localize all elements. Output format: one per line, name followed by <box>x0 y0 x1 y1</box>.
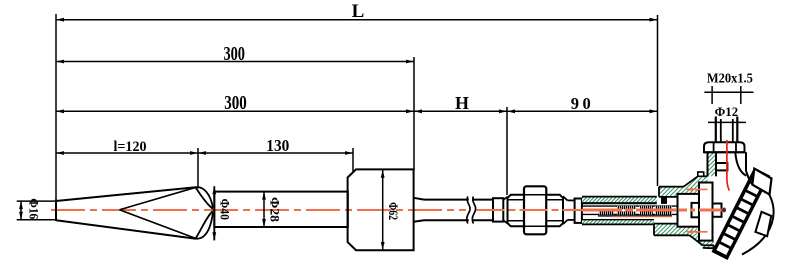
extension line left at tip face <box>55 14 57 221</box>
svg-text:90: 90 <box>571 94 595 113</box>
cone internal V lines <box>120 187 197 238</box>
svg-text:300: 300 <box>224 93 247 114</box>
reducer neck after flange <box>414 198 493 222</box>
connector dome <box>742 186 774 254</box>
spring coil upper segments <box>617 206 636 209</box>
svg-text:300: 300 <box>223 44 245 65</box>
dimension line 300 second + H + 90 <box>56 110 658 112</box>
head bushing bottom wall hatched <box>654 224 714 249</box>
union fitting collar left <box>493 198 503 221</box>
head outline lines <box>654 176 714 249</box>
dimension arrowheads <box>19 18 657 250</box>
M20 tick right <box>740 86 742 104</box>
tube end block in bushing bore <box>661 197 667 204</box>
Phi12 neck walls <box>716 117 738 143</box>
pipe break squiggles <box>469 198 473 223</box>
centerline solid in head <box>699 209 722 212</box>
Phi12 tick left <box>715 117 717 130</box>
svg-text:Φ28: Φ28 <box>267 197 282 223</box>
terminal pin <box>713 204 722 217</box>
head bushing top wall hatched <box>659 187 684 197</box>
Phi40 dim line <box>213 186 215 240</box>
extension line x=198 (l=120 / 130) <box>197 148 199 189</box>
fitting taper left <box>503 197 507 224</box>
svg-text:Φ62: Φ62 <box>386 202 400 220</box>
protection tube hatched top wall <box>582 197 657 202</box>
head boss left wall hatched <box>708 152 717 176</box>
Phi12 tick right <box>736 117 738 130</box>
Phi16 extension top <box>17 200 56 202</box>
head top wedge hatched <box>684 176 704 194</box>
svg-text:M20x1.5: M20x1.5 <box>707 70 753 85</box>
cable ferrule <box>692 203 700 217</box>
orange leader upper <box>685 188 708 192</box>
fitting nut right <box>546 195 563 227</box>
svg-text:Φ16: Φ16 <box>27 198 42 219</box>
corner hatch under step <box>704 176 708 186</box>
ribbed connector band <box>713 169 770 259</box>
Phi16 extension bottom <box>17 219 56 221</box>
svg-text:l=120: l=120 <box>114 139 147 155</box>
Phi28 cylinder <box>214 192 347 227</box>
head boss outline <box>708 152 750 180</box>
terminal plate tall <box>699 183 713 241</box>
extension line x=657.5 (L / 90) <box>657 15 659 186</box>
Phi62 dim line <box>382 170 384 250</box>
extension line x=507 (H / 90) <box>506 107 508 195</box>
terminal dot <box>723 208 726 213</box>
M20 tick left <box>711 86 713 104</box>
dimension M20x1.5 line <box>704 91 753 93</box>
centerline main axis <box>51 209 466 211</box>
Phi16 dim line <box>20 201 22 220</box>
svg-text:H: H <box>455 93 469 113</box>
spring seat small rect in bore <box>716 163 727 170</box>
bulb transition arcs to Phi40 <box>196 186 215 240</box>
fitting hex body <box>524 186 546 234</box>
dimension line l=120 + 130 <box>56 152 353 154</box>
dimension line L <box>56 19 658 21</box>
dimension line 300 first <box>56 61 414 63</box>
spring coil lower segments <box>599 211 614 214</box>
hex nut on head <box>704 142 745 152</box>
Phi62 flange <box>348 169 414 250</box>
svg-text:L: L <box>352 1 365 22</box>
extension line x=414 (300 / H) <box>413 57 415 170</box>
thin orange line under cable <box>612 216 672 218</box>
cone tip body <box>56 187 196 239</box>
svg-text:Φ40: Φ40 <box>217 199 232 221</box>
orange leader lower <box>685 230 708 234</box>
Phi28 dim line <box>263 192 265 227</box>
extension line x=353 (130 right) <box>352 148 354 172</box>
red vertical centerline of neck <box>727 140 729 191</box>
connector end cap <box>752 169 771 195</box>
tube to fitting <box>424 199 493 201</box>
step rect on boss left <box>698 172 704 176</box>
fitting nut left <box>508 195 525 227</box>
dimension Phi12 line <box>708 121 746 123</box>
terminal block <box>678 194 700 227</box>
centerline thick segment in element area <box>582 209 695 212</box>
Phi40 shoulder face <box>213 186 215 240</box>
washer ring <box>575 199 582 223</box>
tube wall edge lines <box>582 197 657 225</box>
svg-text:Φ12: Φ12 <box>715 105 739 119</box>
element cable sheath lines <box>582 206 692 216</box>
connector tab <box>755 212 771 236</box>
centerline over fitting <box>477 209 583 211</box>
fitting taper right <box>563 196 575 224</box>
protection tube hatched bottom wall <box>582 220 654 223</box>
svg-text:130: 130 <box>266 136 289 155</box>
